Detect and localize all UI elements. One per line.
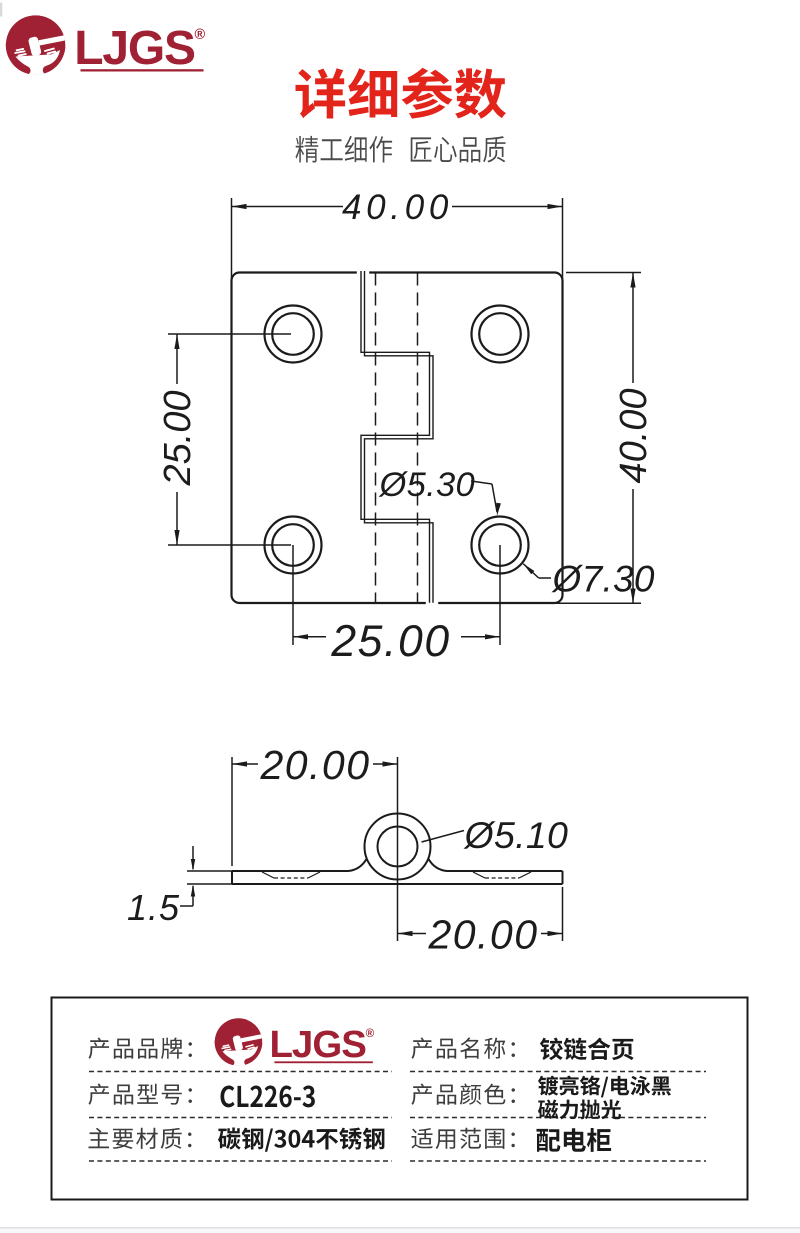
svg-text:Ø5.10: Ø5.10 [463, 814, 569, 856]
svg-text:25.00: 25.00 [157, 390, 199, 486]
svg-text:20.00: 20.00 [427, 912, 538, 958]
svg-text:40.00: 40.00 [342, 188, 453, 227]
svg-text:25.00: 25.00 [330, 617, 450, 666]
svg-text:20.00: 20.00 [259, 742, 370, 788]
svg-text:1.5: 1.5 [127, 887, 180, 928]
svg-text:Ø5.30: Ø5.30 [379, 466, 475, 504]
svg-text:Ø7.30: Ø7.30 [551, 559, 655, 600]
svg-text:40.00: 40.00 [613, 388, 655, 483]
